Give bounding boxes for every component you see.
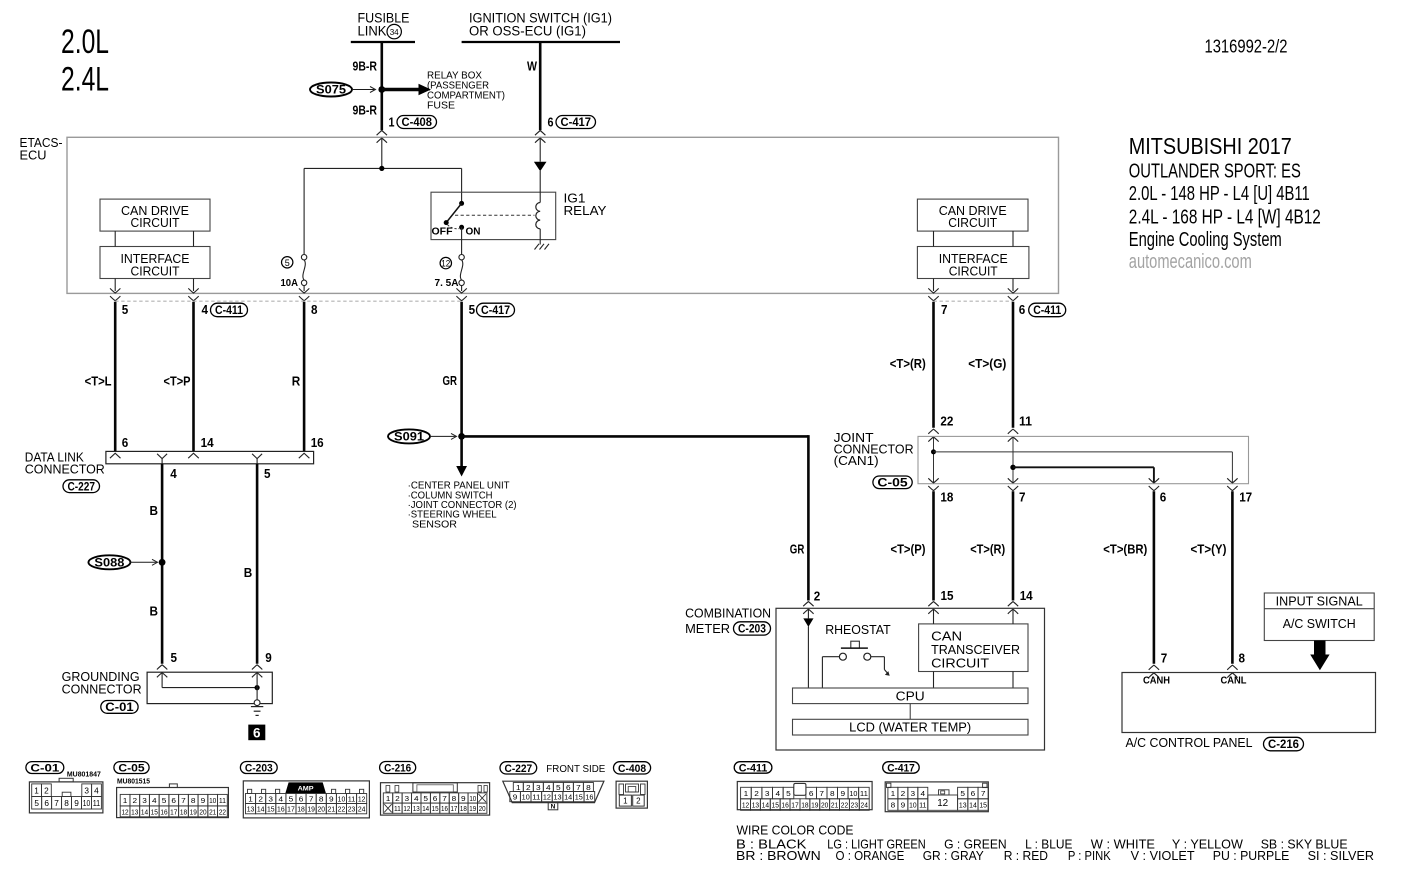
svg-text:V : VIOLET: V : VIOLET — [1131, 848, 1195, 863]
dashed connector line below ETACS right — [934, 300, 1014, 302]
relay contact ON terminal — [459, 225, 464, 230]
svg-text:RELAY: RELAY — [564, 203, 607, 218]
input signal box — [1264, 593, 1374, 641]
svg-text:CONNECTOR: CONNECTOR — [25, 462, 105, 476]
svg-text:7: 7 — [309, 795, 314, 804]
power source bar ignition switch — [462, 41, 620, 43]
connector C-05 drawing — [117, 788, 229, 818]
svg-text:14: 14 — [762, 800, 769, 809]
wire <T>(Y) — [1231, 491, 1234, 664]
wire diode to relay coil — [539, 171, 541, 203]
wire pin14 to transceiver — [1012, 610, 1014, 624]
svg-text:11: 11 — [532, 793, 540, 802]
svg-text:8: 8 — [452, 794, 457, 803]
svg-text:21: 21 — [831, 800, 838, 809]
svg-text:1: 1 — [891, 789, 896, 798]
pass chevrons meter top x=808.4 — [803, 602, 813, 607]
svg-text:16: 16 — [160, 807, 167, 816]
svg-text:9: 9 — [841, 789, 846, 798]
svg-text:MU801847: MU801847 — [67, 770, 101, 779]
wire <T>P colB — [192, 302, 195, 452]
svg-text:3: 3 — [536, 783, 541, 792]
svg-text:11: 11 — [919, 801, 926, 810]
svg-text:7: 7 — [1019, 490, 1026, 505]
wire inside grounding connector — [161, 674, 163, 688]
svg-text:B: B — [150, 603, 159, 618]
svg-text:5: 5 — [960, 789, 965, 798]
svg-text:2: 2 — [133, 796, 138, 805]
wire interface to bottom right E — [933, 279, 935, 292]
joint internal vertical pin11-7 — [1012, 438, 1014, 483]
ETACS-ECU box — [67, 137, 1059, 293]
svg-text:R: R — [292, 373, 301, 388]
wire <T>(R) lower — [1012, 491, 1015, 600]
connector pass chevrons at ETACS bottom x=304.1 — [299, 288, 309, 293]
circled 34 — [387, 24, 401, 38]
svg-text:C-417: C-417 — [887, 762, 915, 774]
wire drop to relay switch — [461, 168, 463, 203]
combination meter box C-203 — [776, 608, 1045, 750]
svg-text:C-216: C-216 — [384, 763, 411, 775]
wire internal tee horizontal — [304, 167, 462, 169]
svg-text:<T>P: <T>P — [164, 373, 191, 388]
svg-text:1: 1 — [248, 795, 253, 804]
wire R colC — [303, 302, 306, 452]
svg-text:7: 7 — [819, 789, 824, 798]
connector C-227 drawing — [503, 781, 604, 802]
wire fuse 5 to ETACS bottom — [303, 286, 305, 292]
svg-text:CIRCUIT: CIRCUIT — [131, 264, 180, 278]
svg-text:4: 4 — [546, 783, 551, 792]
svg-text:RHEOSTAT: RHEOSTAT — [825, 623, 891, 637]
svg-text:2: 2 — [636, 797, 641, 806]
svg-text:3: 3 — [268, 795, 273, 804]
svg-text:11: 11 — [219, 796, 226, 805]
svg-text:6: 6 — [122, 435, 129, 450]
svg-text:C-203: C-203 — [738, 624, 766, 636]
ground reference square 6 — [248, 725, 265, 741]
svg-text:R : RED: R : RED — [1004, 848, 1048, 863]
svg-text:automecanico.com: automecanico.com — [1129, 251, 1252, 273]
svg-text:4: 4 — [94, 786, 99, 795]
wire pin15 to transceiver — [933, 610, 935, 624]
svg-text:1: 1 — [623, 797, 628, 806]
svg-text:19: 19 — [469, 804, 476, 813]
svg-text:P : PINK: P : PINK — [1068, 848, 1111, 863]
connector C-01 badge — [26, 762, 64, 774]
svg-text:3: 3 — [84, 786, 89, 795]
svg-text:C-05: C-05 — [118, 763, 144, 775]
svg-text:9: 9 — [329, 795, 334, 804]
svg-text:20: 20 — [479, 804, 486, 813]
svg-text:9: 9 — [461, 794, 466, 803]
wire can-interface left B — [193, 231, 195, 246]
node tee junction — [379, 166, 384, 171]
svg-text:C-05: C-05 — [877, 477, 908, 489]
CAN drive circuit box left — [100, 199, 210, 231]
svg-text:13: 13 — [752, 800, 759, 809]
svg-text:S088: S088 — [94, 557, 125, 569]
svg-text:15: 15 — [151, 807, 158, 816]
connector C-408 badge — [614, 762, 651, 774]
svg-text:14: 14 — [422, 804, 429, 813]
svg-text:CAN: CAN — [931, 630, 962, 644]
connector C-203 drawing — [243, 781, 369, 818]
pin 5 exit fork — [252, 454, 262, 464]
svg-text:16: 16 — [311, 435, 324, 450]
svg-text:3: 3 — [911, 789, 916, 798]
svg-text:1: 1 — [123, 796, 128, 805]
connector pass chevrons pin6 C-417 at ETACS top — [535, 131, 545, 136]
svg-text:6: 6 — [548, 114, 554, 129]
svg-text:10: 10 — [83, 799, 91, 808]
svg-text:11: 11 — [394, 804, 401, 813]
svg-text:CANH: CANH — [1143, 676, 1170, 687]
svg-text:2: 2 — [814, 588, 821, 603]
svg-text:3: 3 — [405, 794, 410, 803]
svg-text:SENSOR: SENSOR — [412, 518, 457, 530]
svg-text:C-411: C-411 — [215, 305, 244, 317]
connector C-05 badge — [114, 762, 149, 774]
svg-text:W: W — [527, 58, 538, 73]
svg-text:2.0L - 148 HP - L4 [U] 4B11: 2.0L - 148 HP - L4 [U] 4B11 — [1129, 183, 1310, 205]
svg-text:<T>(BR): <T>(BR) — [1103, 542, 1147, 557]
svg-text:16: 16 — [441, 804, 448, 813]
svg-text:2: 2 — [258, 795, 263, 804]
svg-text:9B-R: 9B-R — [353, 102, 378, 117]
joint connector box C-05 — [918, 436, 1249, 483]
wire transceiver to cpu A — [933, 672, 935, 689]
wire transceiver to cpu B — [1012, 672, 1014, 689]
big arrow input signal to ac panel — [1310, 641, 1329, 671]
svg-text:<T>(R): <T>(R) — [970, 542, 1005, 557]
svg-text:11: 11 — [348, 795, 356, 804]
svg-text:6: 6 — [433, 794, 438, 803]
connector C-417 drawing — [885, 782, 988, 812]
svg-text:14: 14 — [1020, 588, 1034, 603]
svg-text:N: N — [551, 804, 556, 811]
svg-text:C-203: C-203 — [245, 763, 273, 775]
data link connector box C-227 — [106, 451, 314, 463]
svg-text:BR : BROWN: BR : BROWN — [736, 848, 821, 863]
connector C-216 badge — [380, 762, 416, 774]
wire GR branch to combination meter — [462, 435, 809, 438]
ground terminal circle — [254, 700, 260, 706]
svg-text:7: 7 — [442, 794, 447, 803]
svg-text:C-411: C-411 — [739, 762, 768, 774]
LCD bar — [793, 719, 1029, 735]
svg-text:4: 4 — [202, 302, 209, 317]
svg-text:OUTLANDER SPORT: ES: OUTLANDER SPORT: ES — [1129, 160, 1301, 182]
a/c control panel box C-216 — [1122, 673, 1376, 733]
splice S075 — [310, 83, 352, 97]
svg-text:22: 22 — [841, 800, 848, 809]
svg-text:6: 6 — [253, 726, 261, 741]
svg-text:1316992-2/2: 1316992-2/2 — [1205, 36, 1288, 57]
svg-text:3: 3 — [765, 789, 770, 798]
svg-text:9: 9 — [901, 801, 906, 810]
svg-text:CIRCUIT: CIRCUIT — [931, 657, 989, 671]
svg-text:LCD (WATER TEMP): LCD (WATER TEMP) — [849, 721, 971, 735]
pass chevrons joint pin11 — [1008, 429, 1018, 434]
dashed connector line below ETACS left — [115, 300, 461, 302]
svg-text:C-408: C-408 — [402, 117, 433, 129]
svg-text:6: 6 — [566, 783, 571, 792]
splice S091 — [388, 429, 430, 443]
svg-text:5: 5 — [289, 795, 294, 804]
svg-text:19: 19 — [811, 800, 818, 809]
svg-text:C-411: C-411 — [1033, 305, 1062, 317]
svg-text:19: 19 — [190, 807, 197, 816]
svg-text:10: 10 — [338, 795, 346, 804]
wire W from ignition switch — [539, 42, 542, 130]
svg-text:9: 9 — [513, 793, 518, 802]
svg-text:5: 5 — [34, 799, 39, 808]
svg-text:8: 8 — [830, 789, 835, 798]
svg-text:17: 17 — [791, 800, 798, 809]
svg-text:2.0L: 2.0L — [61, 23, 109, 61]
svg-text:10: 10 — [849, 789, 857, 798]
svg-text:10: 10 — [209, 796, 216, 805]
svg-text:CIRCUIT: CIRCUIT — [131, 216, 180, 230]
svg-text:4: 4 — [776, 789, 781, 798]
svg-text:6: 6 — [1160, 490, 1167, 505]
svg-text:18: 18 — [460, 804, 467, 813]
svg-text:CIRCUIT: CIRCUIT — [949, 264, 998, 278]
IG1 relay box — [431, 192, 556, 239]
svg-text:6: 6 — [1019, 302, 1026, 317]
svg-text:C-227: C-227 — [505, 763, 533, 775]
svg-text:17: 17 — [287, 805, 295, 814]
svg-text:7: 7 — [941, 302, 948, 317]
svg-text:5: 5 — [162, 796, 167, 805]
wire relay ON to fuse 12 — [461, 227, 463, 254]
svg-text:1: 1 — [516, 783, 521, 792]
svg-text:1: 1 — [34, 786, 39, 795]
connector pass chevrons at ETACS bottom x=115.2 — [110, 288, 120, 293]
svg-text:2: 2 — [526, 783, 531, 792]
wire <T>(R) colE — [932, 302, 935, 428]
svg-text:5: 5 — [122, 302, 129, 317]
wire drop to fuse 5 — [303, 168, 305, 254]
svg-text:7: 7 — [1161, 650, 1168, 665]
svg-text:8: 8 — [586, 783, 591, 792]
svg-text:5: 5 — [171, 650, 178, 665]
svg-text:4: 4 — [170, 466, 177, 481]
svg-text:12: 12 — [121, 807, 128, 816]
svg-text:21: 21 — [328, 805, 336, 814]
pass chevrons grounding pin5 — [157, 665, 167, 670]
svg-text:20: 20 — [199, 807, 206, 816]
svg-text:1: 1 — [744, 789, 749, 798]
wire can-interface left A — [114, 231, 116, 246]
svg-text:6: 6 — [299, 795, 304, 804]
svg-text:12: 12 — [742, 800, 749, 809]
relay coil — [536, 203, 540, 229]
svg-text:9: 9 — [74, 799, 79, 808]
wire can-interface right E — [933, 231, 935, 246]
svg-text:FRONT SIDE: FRONT SIDE — [546, 764, 605, 775]
svg-text:22: 22 — [338, 805, 346, 814]
svg-text:14: 14 — [201, 435, 215, 450]
connector C-417 badge — [883, 762, 920, 774]
svg-text:TRANSCEIVER: TRANSCEIVER — [931, 643, 1020, 657]
svg-text:B: B — [150, 503, 159, 518]
wire fuse 12 to ETACS bottom — [461, 286, 463, 292]
svg-text:5: 5 — [786, 789, 791, 798]
pass chevrons ac pin7 — [1149, 665, 1159, 670]
svg-text:A/C SWITCH: A/C SWITCH — [1283, 617, 1356, 631]
svg-text:16: 16 — [585, 793, 593, 802]
svg-text:7: 7 — [181, 796, 186, 805]
svg-text:6: 6 — [971, 789, 976, 798]
svg-text:19: 19 — [307, 805, 315, 814]
svg-text:MITSUBISHI 2017: MITSUBISHI 2017 — [1129, 133, 1292, 159]
wire GR colD — [460, 302, 463, 437]
connector C-203 badge — [240, 762, 277, 774]
wire <T>(G) colF — [1012, 302, 1015, 428]
svg-text:INPUT SIGNAL: INPUT SIGNAL — [1276, 594, 1363, 608]
wire can-interface right F — [1012, 231, 1014, 246]
wire interface to bottom left A — [114, 279, 116, 292]
interface circuit box left — [100, 247, 210, 279]
svg-text:SI : SILVER: SI : SILVER — [1308, 848, 1374, 863]
meter diode on pin 2 — [807, 610, 809, 619]
svg-text:9B-R: 9B-R — [353, 58, 378, 73]
relay dashed actuation line to coil — [455, 214, 535, 216]
svg-text:2: 2 — [901, 789, 906, 798]
svg-text:7: 7 — [576, 783, 581, 792]
svg-text:10A: 10A — [281, 278, 299, 289]
svg-text:8: 8 — [319, 795, 324, 804]
joint internal bus to pin 17 — [931, 449, 936, 454]
svg-text:8: 8 — [1239, 650, 1246, 665]
svg-text:5: 5 — [556, 783, 561, 792]
svg-text:CANL: CANL — [1221, 676, 1247, 687]
svg-text:<T>(P): <T>(P) — [891, 542, 926, 557]
svg-text:17: 17 — [1239, 490, 1252, 505]
connector C-411 drawing — [737, 782, 872, 810]
connector pass chevrons at ETACS bottom x=933.5 — [928, 288, 938, 293]
svg-text:2: 2 — [395, 794, 400, 803]
joint internal vertical pin22-18 — [933, 438, 935, 483]
svg-text:12: 12 — [441, 259, 450, 269]
svg-text:1: 1 — [389, 114, 395, 129]
svg-text:14: 14 — [969, 801, 977, 810]
svg-text:8: 8 — [64, 799, 69, 808]
pass chevrons joint bottom x=1153.9 — [1149, 478, 1159, 483]
svg-text:7. 5A: 7. 5A — [435, 278, 459, 289]
svg-text:16: 16 — [277, 805, 285, 814]
svg-text:OFF: OFF — [432, 226, 454, 238]
pass chevrons ac pin8 — [1227, 665, 1237, 670]
fuse 5 10A — [301, 255, 306, 260]
svg-text:4: 4 — [279, 795, 284, 804]
svg-text:13: 13 — [131, 807, 138, 816]
svg-text:15: 15 — [432, 804, 439, 813]
svg-text:A/C CONTROL PANEL: A/C CONTROL PANEL — [1126, 736, 1253, 750]
ground symbol relay coil — [535, 244, 550, 250]
CPU bar — [793, 688, 1029, 704]
svg-text:24: 24 — [861, 800, 868, 809]
svg-text:8: 8 — [311, 302, 318, 317]
pass chevrons meter top x=933.5 — [928, 602, 938, 607]
relay switch pivot — [459, 201, 464, 206]
svg-text:18: 18 — [801, 800, 808, 809]
svg-text:<T>(Y): <T>(Y) — [1191, 542, 1227, 557]
pass chevrons joint bottom x=1013.0 — [1008, 478, 1018, 483]
diode in W line — [539, 139, 541, 162]
wire interface to bottom right F — [1012, 279, 1014, 292]
feed arrow to relay box fuse — [382, 88, 419, 91]
svg-text:5: 5 — [264, 466, 271, 481]
svg-text:(CAN1): (CAN1) — [834, 454, 879, 468]
svg-text:14: 14 — [141, 807, 148, 816]
pass chevrons joint pin22 — [928, 429, 938, 434]
svg-text:MU801515: MU801515 — [117, 776, 150, 785]
svg-text:GR : GRAY: GR : GRAY — [923, 848, 985, 863]
svg-text:C-227: C-227 — [68, 481, 96, 493]
wire 9B-R inside ETACS — [381, 139, 383, 168]
svg-text:6: 6 — [809, 789, 814, 798]
wire <T>(P) — [932, 491, 935, 600]
svg-text:20: 20 — [821, 800, 828, 809]
svg-text:4: 4 — [414, 794, 419, 803]
svg-text:FUSE: FUSE — [427, 100, 455, 111]
relay switch arm — [446, 203, 461, 222]
svg-text:5: 5 — [423, 794, 428, 803]
svg-text:22: 22 — [940, 413, 953, 428]
svg-text:11: 11 — [860, 789, 868, 798]
pass chevrons joint bottom x=933.5 — [928, 478, 938, 483]
svg-text:ECU: ECU — [20, 148, 47, 162]
svg-text:6: 6 — [171, 796, 176, 805]
svg-text:S091: S091 — [394, 432, 425, 444]
svg-text:13: 13 — [413, 804, 420, 813]
svg-text:34: 34 — [390, 27, 399, 37]
pass chevrons joint bottom x=1232.4 — [1227, 478, 1237, 483]
svg-text:6: 6 — [44, 799, 49, 808]
svg-text:8: 8 — [191, 796, 196, 805]
svg-text:LINK: LINK — [358, 24, 387, 39]
wire coil to ground — [539, 229, 541, 245]
wire 9B-R from fusible link — [380, 42, 383, 130]
ground symbol G6 — [251, 706, 263, 708]
svg-text:B: B — [244, 565, 253, 580]
svg-text:17: 17 — [170, 807, 177, 816]
svg-text:<T>(R): <T>(R) — [890, 356, 926, 371]
svg-text:C-216: C-216 — [1268, 739, 1299, 751]
svg-text:11: 11 — [1019, 413, 1032, 428]
svg-text:C-417: C-417 — [561, 117, 592, 129]
CAN transceiver circuit box — [919, 624, 1028, 672]
svg-text:4: 4 — [921, 789, 926, 798]
svg-text:GR: GR — [443, 373, 458, 388]
svg-text:4: 4 — [152, 796, 157, 805]
node S088 junction — [159, 559, 166, 566]
connector C-227 badge — [500, 762, 537, 774]
svg-text:5: 5 — [285, 258, 290, 268]
svg-text:1: 1 — [386, 794, 391, 803]
CAN drive circuit box right — [917, 199, 1028, 231]
svg-text:11: 11 — [93, 799, 101, 808]
svg-text:3: 3 — [142, 796, 147, 805]
svg-text:METER: METER — [685, 622, 730, 636]
svg-text:C-01: C-01 — [105, 702, 134, 714]
rheostat symbol — [851, 641, 860, 648]
svg-text:21: 21 — [209, 807, 216, 816]
pass chevrons grounding pin9 — [252, 665, 262, 670]
